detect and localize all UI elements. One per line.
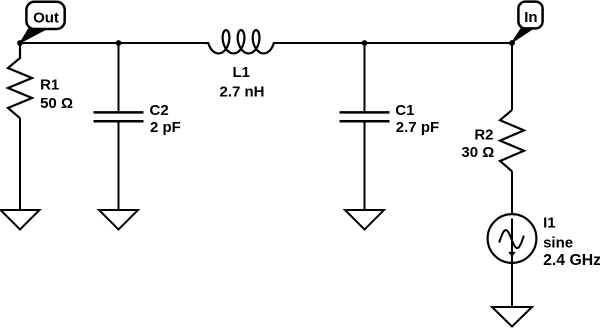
flag Out box: [26, 2, 64, 29]
capacitor C1 top plate: [340, 111, 390, 114]
capacitor C2 top plate: [94, 111, 144, 114]
resistor R1 body: [8, 43, 32, 118]
ground G3: [345, 210, 384, 230]
svg-text:Out: Out: [33, 9, 59, 26]
flag In pointer: [512, 29, 532, 43]
svg-text:2.7 nH: 2.7 nH: [219, 83, 264, 100]
ground G4: [492, 307, 532, 327]
svg-text:R1: R1: [40, 76, 59, 93]
node Out (junction dot): [17, 40, 23, 46]
svg-text:R2: R2: [474, 126, 493, 143]
wire top rail right (L1 to In node): [274, 42, 512, 44]
capacitor C2 bottom plate: [94, 120, 144, 123]
current source I1 arrow shaft: [511, 219, 513, 263]
node In (junction dot): [509, 40, 515, 46]
svg-text:sine: sine: [543, 235, 573, 252]
svg-text:30 Ω: 30 Ω: [461, 144, 494, 161]
wire C1 lower: [364, 121, 366, 210]
wire R1 to ground: [19, 118, 21, 210]
wire I1 to ground: [511, 263, 513, 307]
svg-text:In: In: [524, 9, 537, 26]
flag In box: [518, 2, 542, 29]
svg-text:I1: I1: [543, 214, 556, 231]
current source I1 sine wave: [499, 230, 523, 248]
wire C1 upper: [364, 43, 366, 112]
inductor L1 coil: [208, 30, 273, 53]
svg-text:2.4 GHz: 2.4 GHz: [543, 252, 600, 269]
resistor R2 body: [500, 110, 524, 171]
wire In node to R2: [511, 43, 513, 110]
svg-text:2 pF: 2 pF: [150, 119, 181, 136]
wire top rail left (Out node to L1): [20, 42, 208, 44]
current source I1 circle: [488, 214, 537, 263]
svg-text:C2: C2: [150, 102, 169, 119]
svg-text:L1: L1: [232, 64, 250, 81]
ground G2: [99, 210, 138, 230]
flag Out pointer: [20, 28, 46, 43]
svg-text:2.7 pF: 2.7 pF: [396, 119, 439, 136]
svg-text:C1: C1: [395, 102, 414, 119]
current source I1 arrowhead: [508, 252, 516, 257]
wire C2 upper: [118, 43, 120, 112]
wire R2 to I1: [511, 171, 513, 214]
node C2 junction dot: [116, 40, 122, 46]
svg-text:50 Ω: 50 Ω: [40, 95, 73, 112]
node C1 junction dot: [362, 40, 368, 46]
capacitor C1 bottom plate: [340, 120, 390, 123]
wire C2 lower: [118, 121, 120, 210]
ground G1: [1, 210, 40, 230]
